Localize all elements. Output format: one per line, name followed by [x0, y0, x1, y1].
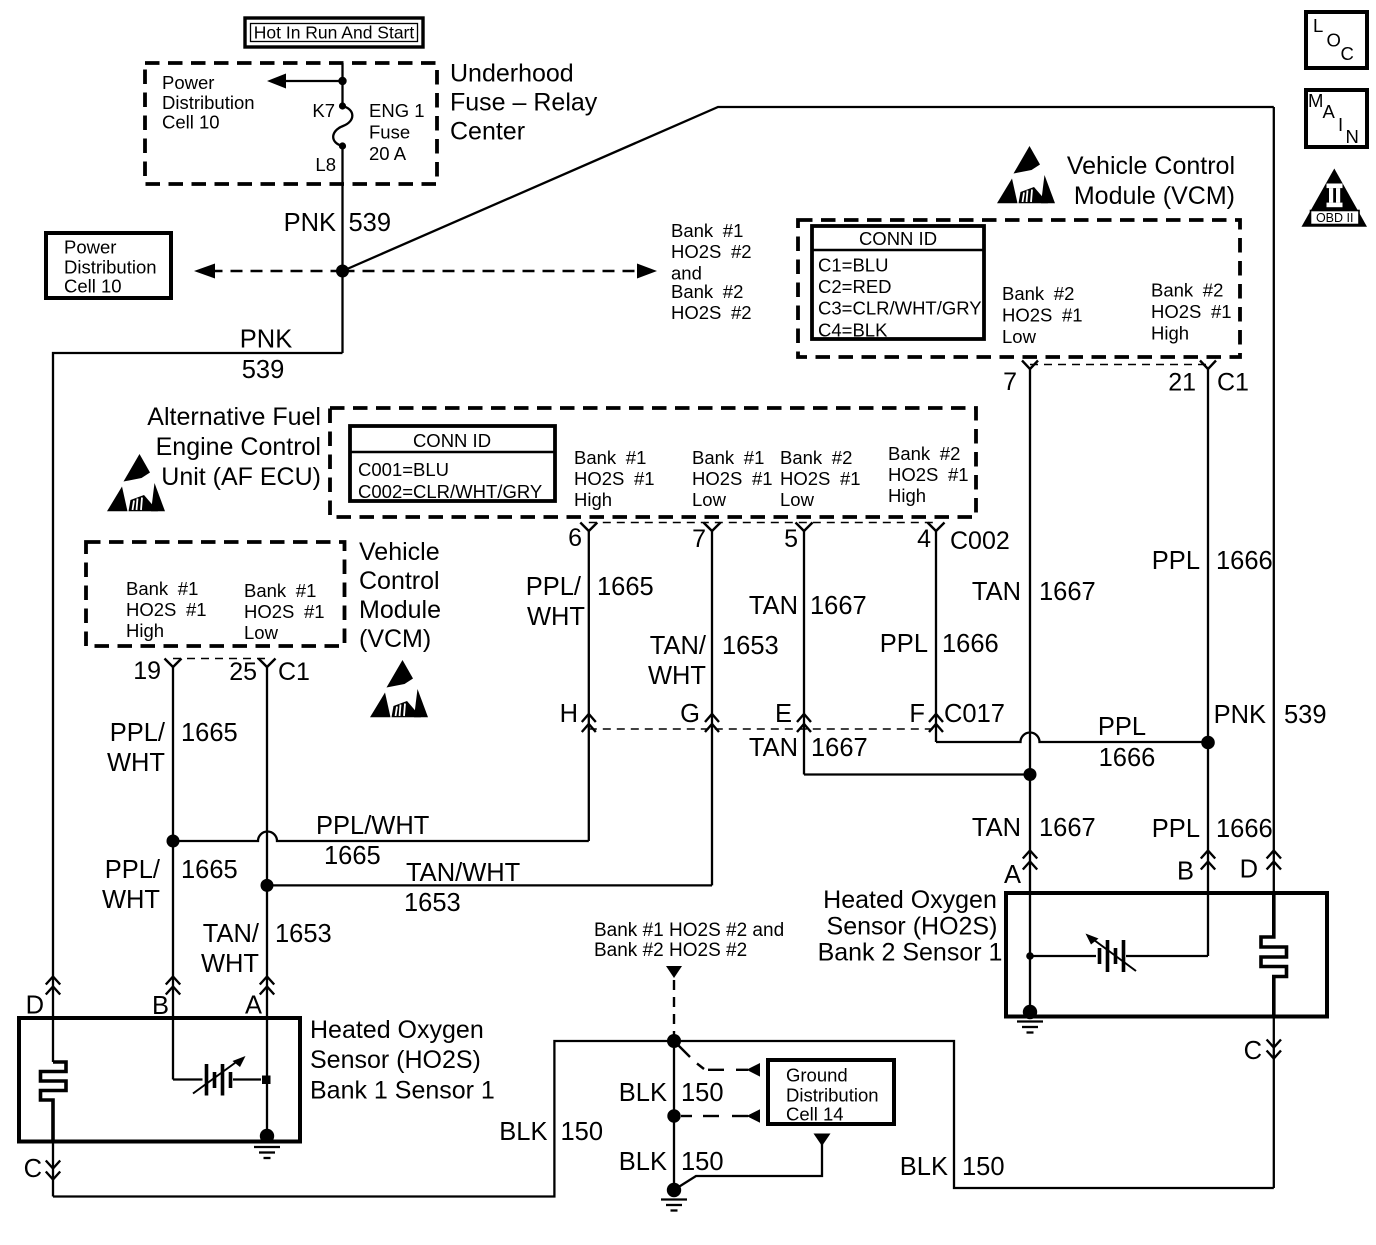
svg-text:PPL/: PPL/ [526, 573, 582, 601]
svg-text:150: 150 [681, 1079, 724, 1107]
svg-text:C3=CLR/WHT/GRY: C3=CLR/WHT/GRY [818, 298, 982, 319]
ground (HO2S bank2 case) [1017, 1022, 1043, 1033]
svg-text:25: 25 [229, 658, 257, 686]
label Bank #1 HO2S #2 and Bank #2 HO2S #2 [671, 220, 752, 323]
box Ground Distribution Cell 14 [768, 1060, 894, 1125]
svg-text:Low: Low [244, 622, 279, 643]
svg-text:1666: 1666 [1216, 815, 1273, 843]
svg-text:BLK: BLK [499, 1118, 547, 1146]
svg-text:Cell 10: Cell 10 [162, 112, 220, 133]
svg-text:High: High [1151, 323, 1189, 344]
connector B (HO2S bank1) [152, 977, 180, 1021]
svg-text:BLK: BLK [900, 1153, 948, 1181]
svg-text:C1: C1 [278, 658, 310, 686]
svg-text:Fuse – Relay: Fuse – Relay [450, 89, 598, 117]
label Vehicle Control Module (VCM) left [359, 538, 441, 653]
sensor element (variable cell) bank2 [1030, 934, 1208, 973]
svg-text:F: F [909, 700, 925, 728]
svg-text:1666: 1666 [1099, 744, 1156, 772]
svg-text:C001=BLU: C001=BLU [358, 459, 449, 480]
label PPL/WHT 1665 (pin 6 wire) [526, 573, 654, 631]
svg-text:21: 21 [1168, 369, 1196, 397]
label Vehicle Control Module (VCM) top right [1067, 152, 1235, 210]
label BLK 150 (x674 upper) [619, 1079, 724, 1107]
svg-text:CONN ID: CONN ID [413, 430, 491, 451]
svg-text:PPL: PPL [1098, 713, 1146, 741]
VCM (left) dashed box [86, 542, 345, 646]
svg-text:Unit (AF ECU): Unit (AF ECU) [161, 463, 321, 491]
connector H (C017) [560, 700, 596, 732]
icon OBD II triangle [1302, 169, 1368, 227]
svg-text:E: E [775, 700, 792, 728]
svg-text:TAN/WHT: TAN/WHT [406, 859, 520, 887]
Underhood Fuse-Relay Center dashed box [145, 63, 437, 184]
svg-text:PNK: PNK [1214, 701, 1266, 729]
svg-text:BLK: BLK [619, 1148, 667, 1176]
svg-text:C002=CLR/WHT/GRY: C002=CLR/WHT/GRY [358, 481, 542, 502]
label BLK 150 (left bottom) [499, 1118, 603, 1146]
svg-text:Underhood: Underhood [450, 60, 574, 88]
svg-text:Sensor (HO2S): Sensor (HO2S) [827, 913, 998, 941]
svg-text:1667: 1667 [1039, 578, 1096, 606]
svg-text:WHT: WHT [201, 950, 259, 978]
wire PNK 539 down left side [53, 353, 343, 1062]
svg-text:Power: Power [162, 72, 214, 93]
svg-text:PPL: PPL [880, 630, 928, 658]
node junction PPL/WHT at pin19 wire [167, 835, 180, 848]
svg-text:N: N [1346, 126, 1359, 147]
svg-text:Bank #2: Bank #2 [1151, 280, 1223, 301]
node junction at feed arrow [338, 77, 346, 85]
box "Hot In Run And Start" [245, 18, 423, 47]
svg-text:BLK: BLK [619, 1079, 667, 1107]
svg-text:PPL: PPL [1152, 815, 1200, 843]
svg-text:PPL/: PPL/ [105, 856, 161, 884]
svg-text:539: 539 [242, 356, 285, 384]
pin 25 connector Y (VCM left) [229, 658, 310, 686]
wire PPL/WHT 1665 from VCM pin 19 [172, 667, 174, 1080]
svg-text:B: B [1177, 858, 1194, 886]
label BLK 150 (x674 lower) [619, 1148, 724, 1176]
svg-text:TAN/: TAN/ [203, 920, 260, 948]
svg-text:Center: Center [450, 118, 525, 146]
label Bank #1 HO2S #2 and Bank #2 HO2S #2 (bottom) [594, 920, 784, 961]
label Bank #2 HO2S #1 High (VCM pin 21) [1151, 280, 1232, 344]
svg-text:Bank #1: Bank #1 [692, 447, 764, 468]
svg-text:Control: Control [359, 567, 440, 595]
wire TAN 1667 from AF pin 5 [803, 531, 805, 775]
ground (HO2S bank1 case) [254, 1147, 280, 1158]
svg-text:PNK: PNK [284, 209, 336, 237]
label Bank #1 HO2S #1 High (VCM pin 19) [126, 578, 207, 641]
svg-text:L: L [1313, 15, 1323, 36]
wire PPL/WHT 1665 from AF pin 6 [588, 531, 590, 841]
svg-text:C017: C017 [944, 700, 1005, 728]
svg-text:Low: Low [780, 489, 815, 510]
fuse F1 ENG 1 20A [333, 102, 352, 149]
svg-text:H: H [560, 700, 578, 728]
svg-text:Bank #1: Bank #1 [574, 447, 646, 468]
svg-text:19: 19 [133, 657, 161, 685]
svg-text:Bank 2 Sensor 1: Bank 2 Sensor 1 [818, 939, 1003, 967]
svg-text:Fuse: Fuse [369, 122, 410, 143]
svg-text:1666: 1666 [942, 630, 999, 658]
svg-text:WHT: WHT [102, 886, 160, 914]
svg-text:HO2S #1: HO2S #1 [244, 601, 325, 622]
svg-text:Bank 1 Sensor 1: Bank 1 Sensor 1 [310, 1077, 495, 1105]
wire PNK 539 right vertical [1273, 107, 1275, 893]
svg-text:Heated Oxygen: Heated Oxygen [310, 1016, 484, 1044]
pin 4 connector Y (AF ECU) [917, 523, 1010, 556]
svg-text:L8: L8 [315, 154, 336, 175]
svg-text:Low: Low [1002, 326, 1037, 347]
svg-text:150: 150 [962, 1153, 1005, 1181]
svg-text:Ground: Ground [786, 1065, 848, 1086]
svg-text:1666: 1666 [1216, 547, 1273, 575]
svg-text:539: 539 [1284, 701, 1327, 729]
label TAN 1667 (VCM pin 7 wire) [972, 578, 1096, 606]
svg-text:C1: C1 [1217, 369, 1249, 397]
svg-text:HO2S #1: HO2S #1 [1002, 305, 1083, 326]
svg-text:C002: C002 [950, 527, 1010, 555]
svg-text:1667: 1667 [1039, 814, 1096, 842]
svg-text:5: 5 [784, 525, 798, 553]
box Heated Oxygen Sensor HO2S Bank 2 Sensor 1 [1006, 893, 1327, 1017]
label PPL 1666 (VCM pin 21 wire) [1152, 547, 1273, 575]
svg-text:Cell 10: Cell 10 [64, 276, 122, 297]
wire TAN/WHT 1653 from VCM pin 25 [266, 667, 268, 1140]
label PPL/WHT 1665 (horizontal) [316, 812, 429, 870]
svg-text:C1=BLU: C1=BLU [818, 255, 888, 276]
wire PNK from Hot In Run to fuse K7 [341, 63, 343, 106]
wire PPL/WHT 1665 horizontal with hop over TAN/WHT [173, 832, 589, 842]
label PNK 539 at left corner [240, 326, 292, 385]
svg-text:D: D [1240, 856, 1258, 884]
svg-text:150: 150 [681, 1148, 724, 1176]
icon LOC box [1306, 12, 1367, 68]
node junction BLK 150 lower [667, 1109, 680, 1122]
sensor element (variable cell) bank1 [193, 1056, 261, 1096]
wire PPL 1666 from VCM pin 21 [1207, 369, 1209, 956]
svg-text:ENG 1: ENG 1 [369, 100, 425, 121]
svg-text:Bank #2: Bank #2 [1002, 283, 1074, 304]
node junction PPL 1666 [1201, 736, 1215, 750]
label PNK 539 [284, 209, 391, 237]
svg-text:Bank #1 HO2S #2 and: Bank #1 HO2S #2 and [594, 920, 784, 941]
svg-text:A: A [1004, 861, 1021, 889]
svg-text:6: 6 [568, 524, 582, 552]
svg-text:Module: Module [359, 596, 441, 624]
connector A (HO2S bank2) [1004, 851, 1037, 890]
connector row dashed link (AF ECU 6-4) [589, 522, 936, 524]
label TAN 1667 (lower, pin7 wire) [972, 814, 1096, 842]
node sensor tap bank1 (square) [262, 1076, 271, 1085]
svg-text:C4=BLK: C4=BLK [818, 320, 888, 341]
svg-text:C: C [1341, 43, 1354, 64]
node splice junction PNK 539 [336, 265, 349, 278]
connector row dashed link (VCM 19-25) [173, 658, 267, 660]
node ground junction bank1 [260, 1129, 274, 1143]
label PPL/WHT 1665 (pin 19 wire lower) [102, 856, 238, 914]
label Bank #1 HO2S #1 Low (VCM pin 25) [244, 580, 325, 643]
connector G (C017) [680, 700, 719, 732]
svg-text:Distribution: Distribution [162, 92, 255, 113]
heater element bank1 [41, 1062, 67, 1142]
svg-text:4: 4 [917, 525, 931, 553]
label PPL 1666 (pin 4 wire) [880, 630, 999, 658]
svg-text:WHT: WHT [527, 603, 585, 631]
svg-text:1653: 1653 [404, 889, 461, 917]
svg-text:CONN ID: CONN ID [859, 228, 937, 249]
svg-text:Vehicle Control: Vehicle Control [1067, 152, 1235, 180]
label Power Distribution Cell 10 (inside fuse box) [162, 72, 255, 133]
svg-text:A: A [1323, 101, 1336, 122]
ESD symbol (VCM top right) [997, 146, 1055, 203]
wire PPL 1666 from connector F with hop [936, 733, 1208, 743]
wire B pin to sensor bank1 [173, 1078, 203, 1080]
wire TAN 1667 from VCM pin 7 [1029, 369, 1031, 1012]
ESD symbol (VCM left) [370, 660, 428, 717]
svg-text:WHT: WHT [107, 749, 165, 777]
svg-text:Cell 14: Cell 14 [786, 1104, 844, 1125]
wire BLK below bank1 box (D/C pin) [52, 1100, 54, 1197]
svg-text:HO2S #1: HO2S #1 [780, 468, 861, 489]
label TAN/WHT 1653 (pin 7 wire) [648, 632, 779, 690]
svg-text:1653: 1653 [722, 632, 779, 660]
pin 19 connector Y (VCM left) [133, 657, 181, 685]
wire dashed arrow to Ground Distribution (upper) [674, 1041, 760, 1077]
svg-text:HO2S #2: HO2S #2 [671, 241, 752, 262]
box Heated Oxygen Sensor HO2S Bank 1 Sensor 1 [19, 1018, 300, 1142]
node ground junction BLK 150 [667, 1183, 681, 1197]
wire dashed arrow to Bank HO2S #2 sensors [343, 264, 658, 279]
icon MAIN box [1306, 90, 1367, 147]
node junction TAN 1667 [1024, 768, 1037, 781]
connector C (HO2S bank1) [24, 1155, 61, 1183]
label Bank #2 HO2S #1 Low (AF pin 5) [780, 447, 861, 510]
connector D (HO2S bank2) [1240, 851, 1281, 884]
svg-text:Distribution: Distribution [786, 1085, 879, 1106]
svg-text:HO2S #1: HO2S #1 [574, 468, 655, 489]
label Bank #2 HO2S #1 Low (VCM pin 7) [1002, 283, 1083, 347]
svg-text:Hot In Run And Start: Hot In Run And Start [254, 23, 415, 43]
svg-text:HO2S #2: HO2S #2 [671, 302, 752, 323]
pin 7 connector Y (AF ECU) [692, 523, 720, 554]
svg-text:7: 7 [1003, 368, 1017, 396]
svg-text:K7: K7 [312, 100, 335, 121]
wire TAN 1667 from connector E to pin7 wire [804, 773, 1030, 775]
connector C (HO2S bank2) [1244, 1037, 1281, 1065]
svg-text:TAN: TAN [749, 592, 798, 620]
svg-text:1667: 1667 [811, 734, 868, 762]
svg-text:1665: 1665 [597, 573, 654, 601]
svg-text:PNK: PNK [240, 326, 292, 354]
svg-text:150: 150 [561, 1118, 604, 1146]
pin 5 connector Y (AF ECU) [784, 523, 812, 554]
svg-text:PPL/WHT: PPL/WHT [316, 812, 429, 840]
svg-text:Low: Low [692, 489, 727, 510]
box Power Distribution Cell 10 [46, 233, 171, 298]
svg-text:High: High [888, 485, 926, 506]
svg-text:B: B [152, 992, 169, 1020]
svg-text:TAN: TAN [972, 814, 1021, 842]
wire BLK 150 bottom run [53, 1041, 1274, 1197]
svg-text:Module (VCM): Module (VCM) [1074, 182, 1235, 210]
svg-text:I: I [1338, 114, 1343, 135]
label Heated Oxygen Sensor (HO2S) Bank 2 Sensor 1 [818, 886, 1003, 967]
svg-text:Sensor (HO2S): Sensor (HO2S) [310, 1046, 481, 1074]
wire TAN/WHT 1653 from AF pin 7 [711, 531, 713, 885]
label PPL 1666 (connector F wire) [1098, 713, 1155, 772]
label Heated Oxygen Sensor (HO2S) Bank 1 Sensor 1 [310, 1016, 495, 1105]
wire BLK 150 to ground [673, 1041, 675, 1190]
connector A (HO2S bank1) [245, 977, 274, 1020]
svg-text:O: O [1327, 30, 1341, 51]
svg-text:WHT: WHT [648, 662, 706, 690]
connector E (C017) [775, 700, 811, 732]
svg-text:HO2S #1: HO2S #1 [692, 468, 773, 489]
connector row dashed link (C017 H-G-E-F) [589, 728, 936, 730]
svg-text:20 A: 20 A [369, 143, 407, 164]
svg-text:TAN: TAN [972, 578, 1021, 606]
svg-text:Distribution: Distribution [64, 257, 157, 278]
node ground junction bank2 [1023, 1005, 1037, 1019]
node junction BLK 150 upper [667, 1034, 681, 1048]
svg-text:TAN/: TAN/ [650, 632, 707, 660]
svg-text:Bank #2: Bank #2 [671, 281, 743, 302]
svg-text:High: High [126, 620, 164, 641]
svg-text:7: 7 [692, 525, 706, 553]
pin 7 connector Y (VCM) [1003, 361, 1038, 397]
svg-text:High: High [574, 489, 612, 510]
AF ECU dashed box [330, 408, 976, 517]
wire BLK from bank2 D pin below box [1273, 1017, 1275, 1189]
node junction TAN/WHT at pin25 wire [261, 879, 274, 892]
label PNK 539 (right vertical) [1214, 701, 1327, 729]
wire TAN/WHT 1653 horizontal [267, 884, 712, 886]
svg-text:HO2S #1: HO2S #1 [1151, 301, 1232, 322]
wire arrow to Power Distribution Cell 10 [267, 74, 343, 89]
svg-text:Power: Power [64, 237, 116, 258]
svg-text:1653: 1653 [275, 920, 332, 948]
wire dashed from HO2S #2 sensors [666, 966, 682, 1041]
svg-text:HO2S #1: HO2S #1 [888, 464, 969, 485]
svg-text:1665: 1665 [324, 842, 381, 870]
svg-text:Alternative Fuel: Alternative Fuel [147, 403, 321, 431]
wire PPL 1666 from AF pin 4 [935, 531, 937, 742]
wire PNK 539 from fuse L8 down to junction [341, 146, 343, 353]
svg-text:1665: 1665 [181, 856, 238, 884]
heater element bank2 [1261, 893, 1287, 1017]
connector D (HO2S bank1) [26, 977, 61, 1020]
label BLK 150 (right bottom) [900, 1153, 1005, 1181]
label PPL/WHT 1665 (pin 19 wire upper) [107, 719, 238, 777]
svg-text:Heated Oxygen: Heated Oxygen [823, 886, 997, 914]
CONN ID table (VCM) [812, 226, 984, 341]
svg-text:Bank #2 HO2S #2: Bank #2 HO2S #2 [594, 940, 747, 961]
connector row dashed link (VCM 7-21) [1030, 364, 1208, 366]
wire dashed arrow to Power Distribution Cell 10 box [194, 264, 343, 279]
pin 21 connector Y (VCM) [1168, 361, 1249, 397]
svg-text:Bank #2: Bank #2 [888, 443, 960, 464]
CONN ID table (AF ECU) [350, 426, 555, 502]
svg-text:C: C [1244, 1037, 1262, 1065]
svg-text:C2=RED: C2=RED [818, 276, 892, 297]
label TAN 1667 (pin 5 wire) [749, 592, 867, 620]
value label ENG 1 Fuse 20 A [369, 100, 425, 164]
label TAN/WHT 1653 (pin 25 wire lower) [201, 920, 332, 978]
svg-text:D: D [26, 992, 44, 1020]
svg-text:PPL: PPL [1152, 547, 1200, 575]
connector B (HO2S bank2) [1177, 851, 1215, 886]
ground G103 [661, 1200, 687, 1211]
svg-text:A: A [245, 992, 262, 1020]
svg-text:Vehicle: Vehicle [359, 538, 440, 566]
svg-text:Bank #1: Bank #1 [126, 578, 198, 599]
label TAN/WHT 1653 (horizontal) [404, 859, 520, 917]
label TAN 1667 (connector E wire) [749, 734, 868, 762]
svg-text:1665: 1665 [181, 719, 238, 747]
svg-text:Bank #1: Bank #1 [671, 220, 743, 241]
wire dashed arrow to Ground Distribution (lower) [681, 1109, 760, 1123]
VCM dashed box top right [798, 220, 1240, 357]
svg-text:HO2S #1: HO2S #1 [126, 599, 207, 620]
label Alternative Fuel Engine Control Unit (AF ECU) [147, 403, 321, 491]
label PPL 1666 (lower, pin21 wire) [1152, 815, 1273, 843]
svg-text:Bank #1: Bank #1 [244, 580, 316, 601]
label Bank #1 HO2S #1 High (AF pin 6) [574, 447, 655, 510]
svg-text:(VCM): (VCM) [359, 625, 431, 653]
svg-text:OBD II: OBD II [1316, 211, 1354, 225]
label Bank #2 HO2S #1 High (AF pin 4) [888, 443, 969, 506]
svg-text:M: M [1308, 90, 1323, 111]
wire from Ground Distribution box to ground [677, 1134, 831, 1189]
svg-text:539: 539 [349, 209, 392, 237]
pin 6 connector Y (AF ECU) [568, 523, 597, 553]
svg-text:PPL/: PPL/ [110, 719, 166, 747]
ESD symbol (AF ECU) [107, 454, 165, 511]
wire PNK 539 diagonal to top right [343, 107, 1274, 271]
label Bank #1 HO2S #1 Low (AF pin 7) [692, 447, 773, 510]
node sensor tap bank2 [1026, 952, 1034, 960]
connector F (C017) [909, 700, 1005, 732]
svg-text:TAN: TAN [749, 734, 798, 762]
svg-text:C: C [24, 1155, 42, 1183]
label Underhood Fuse-Relay Center [450, 60, 598, 146]
svg-text:1667: 1667 [810, 592, 867, 620]
svg-text:G: G [680, 700, 700, 728]
svg-text:Engine Control: Engine Control [156, 433, 321, 461]
svg-text:Bank #2: Bank #2 [780, 447, 852, 468]
